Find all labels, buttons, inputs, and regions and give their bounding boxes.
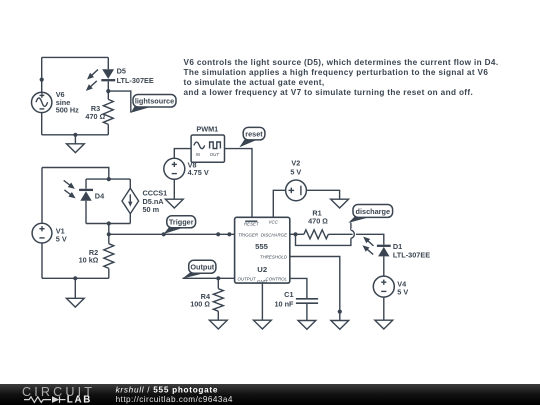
ground xyxy=(375,320,393,329)
svg-text:100 Ω: 100 Ω xyxy=(190,299,210,308)
svg-text:http://circuitlab.com/c9643a4: http://circuitlab.com/c9643a4 xyxy=(116,395,233,404)
svg-text:555: 555 xyxy=(255,242,269,251)
svg-text:to simulate the actual gate ev: to simulate the actual gate event, xyxy=(184,78,325,87)
node xyxy=(162,232,166,236)
svg-text:Output: Output xyxy=(190,263,214,272)
ground xyxy=(331,199,349,208)
wire trigger net xyxy=(109,233,235,235)
node xyxy=(293,232,297,236)
svg-text:D4: D4 xyxy=(95,191,105,200)
node xyxy=(216,232,220,236)
ground xyxy=(67,135,85,153)
CircuitLab logo xyxy=(22,385,95,405)
voltage source V6 xyxy=(32,90,80,114)
net flag discharge xyxy=(348,205,392,223)
footer text xyxy=(116,385,233,404)
capacitor C1 xyxy=(274,290,318,309)
photodiode D4 incident arrows xyxy=(64,180,76,198)
node xyxy=(227,232,231,236)
wire xyxy=(41,168,43,224)
svg-text:V2: V2 xyxy=(291,159,300,168)
wire xyxy=(383,297,385,320)
wire xyxy=(290,233,304,235)
ground xyxy=(209,320,227,329)
resistor R3 xyxy=(85,99,113,124)
node xyxy=(40,78,44,82)
svg-text:5 V: 5 V xyxy=(397,287,408,296)
wire xyxy=(86,178,130,180)
svg-text:LAB: LAB xyxy=(67,395,92,405)
wire xyxy=(174,149,191,159)
wire threshold net xyxy=(290,257,340,321)
svg-text:U2: U2 xyxy=(257,265,267,274)
svg-text:discharge: discharge xyxy=(356,207,390,216)
svg-text:C1: C1 xyxy=(284,290,293,299)
svg-text:OUT: OUT xyxy=(210,152,220,157)
wire xyxy=(42,277,109,279)
wire xyxy=(42,134,109,136)
wire xyxy=(108,224,110,235)
svg-text:470 Ω: 470 Ω xyxy=(308,217,328,226)
svg-text:Trigger: Trigger xyxy=(169,218,194,227)
voltage source V8 xyxy=(164,158,209,179)
wire xyxy=(129,214,131,224)
wire xyxy=(108,91,131,113)
net flag lightsource xyxy=(131,95,176,113)
wire xyxy=(273,190,285,217)
wire xyxy=(41,57,43,92)
voltage source V1 xyxy=(32,223,67,243)
LED D5 emission arrows xyxy=(86,70,98,91)
wire xyxy=(107,124,109,134)
svg-text:krshull / 555 photogate: krshull / 555 photogate xyxy=(116,385,219,394)
resistor R1 xyxy=(304,208,328,239)
svg-text:50 m: 50 m xyxy=(143,205,160,214)
ground xyxy=(331,321,349,330)
wire xyxy=(383,256,385,276)
svg-text:5 V: 5 V xyxy=(56,234,67,243)
svg-text:CONTROL: CONTROL xyxy=(266,277,288,282)
wire xyxy=(290,278,307,298)
wire output net xyxy=(182,277,234,279)
svg-text:V6 controls the light source (: V6 controls the light source (D5), which… xyxy=(184,58,499,67)
wire xyxy=(306,303,308,320)
annotation text xyxy=(184,58,499,97)
IC U2 555 xyxy=(235,217,290,284)
node xyxy=(73,133,77,137)
node xyxy=(106,89,110,93)
wire xyxy=(85,201,87,224)
footer bar xyxy=(0,384,540,405)
wire xyxy=(42,56,109,58)
svg-text:PWM1: PWM1 xyxy=(196,124,218,133)
svg-text:lightsource: lightsource xyxy=(135,97,174,106)
svg-text:TRIGGER: TRIGGER xyxy=(238,233,259,238)
node xyxy=(73,276,77,280)
wire xyxy=(261,283,263,320)
wire xyxy=(42,168,109,180)
wire xyxy=(85,179,87,189)
svg-text:OUTPUT: OUTPUT xyxy=(238,277,256,282)
svg-text:10 kΩ: 10 kΩ xyxy=(79,256,99,265)
svg-text:reset: reset xyxy=(245,130,263,139)
node xyxy=(216,276,220,280)
LED D1 emission arrows xyxy=(363,237,374,255)
net flag Output xyxy=(182,260,216,278)
svg-text:5 V: 5 V xyxy=(290,168,301,177)
resistor R4 xyxy=(190,278,223,320)
current source CCCS1 xyxy=(122,188,167,214)
svg-text:500 Hz: 500 Hz xyxy=(56,106,79,115)
wire xyxy=(86,223,130,225)
svg-text:THRESHOLD: THRESHOLD xyxy=(260,255,288,260)
wire discharge loop xyxy=(296,223,355,246)
net flag Trigger xyxy=(164,216,196,234)
LED D5 xyxy=(101,66,154,84)
photodiode D4 xyxy=(79,190,105,201)
svg-text:The simulation applies a high: The simulation applies a high frequency … xyxy=(184,68,489,77)
svg-text:and a lower frequency at V7 to: and a lower frequency at V7 to simulate … xyxy=(184,88,474,97)
ground xyxy=(66,278,84,307)
svg-text:LTL-307EE: LTL-307EE xyxy=(393,250,430,259)
LED D1 xyxy=(377,242,430,259)
wire xyxy=(306,190,339,199)
voltage source V4 xyxy=(373,276,408,297)
wire xyxy=(328,234,384,244)
node xyxy=(107,221,111,225)
wire xyxy=(107,57,109,69)
node xyxy=(338,310,342,314)
wire xyxy=(129,179,131,188)
wire xyxy=(41,243,43,278)
wire xyxy=(107,81,109,99)
net flag reset xyxy=(239,127,265,147)
ground xyxy=(298,321,316,330)
svg-text:470 Ω: 470 Ω xyxy=(85,112,105,121)
svg-text:RESET: RESET xyxy=(244,222,259,227)
PWM source PWM1 xyxy=(191,124,224,162)
svg-text:10 nF: 10 nF xyxy=(274,300,294,309)
svg-text:VCC: VCC xyxy=(269,220,279,225)
ground xyxy=(254,320,272,329)
wire xyxy=(225,149,253,218)
node xyxy=(107,177,111,181)
voltage source V2 xyxy=(286,159,307,201)
svg-text:LTL-307EE: LTL-307EE xyxy=(117,76,154,85)
svg-text:DISCHARGE: DISCHARGE xyxy=(261,233,287,238)
resistor R2 xyxy=(79,234,114,278)
svg-text:D5: D5 xyxy=(117,66,126,75)
ground xyxy=(165,179,183,208)
svg-text:4.75 V: 4.75 V xyxy=(188,168,209,177)
wire xyxy=(41,112,43,135)
node xyxy=(107,232,111,236)
